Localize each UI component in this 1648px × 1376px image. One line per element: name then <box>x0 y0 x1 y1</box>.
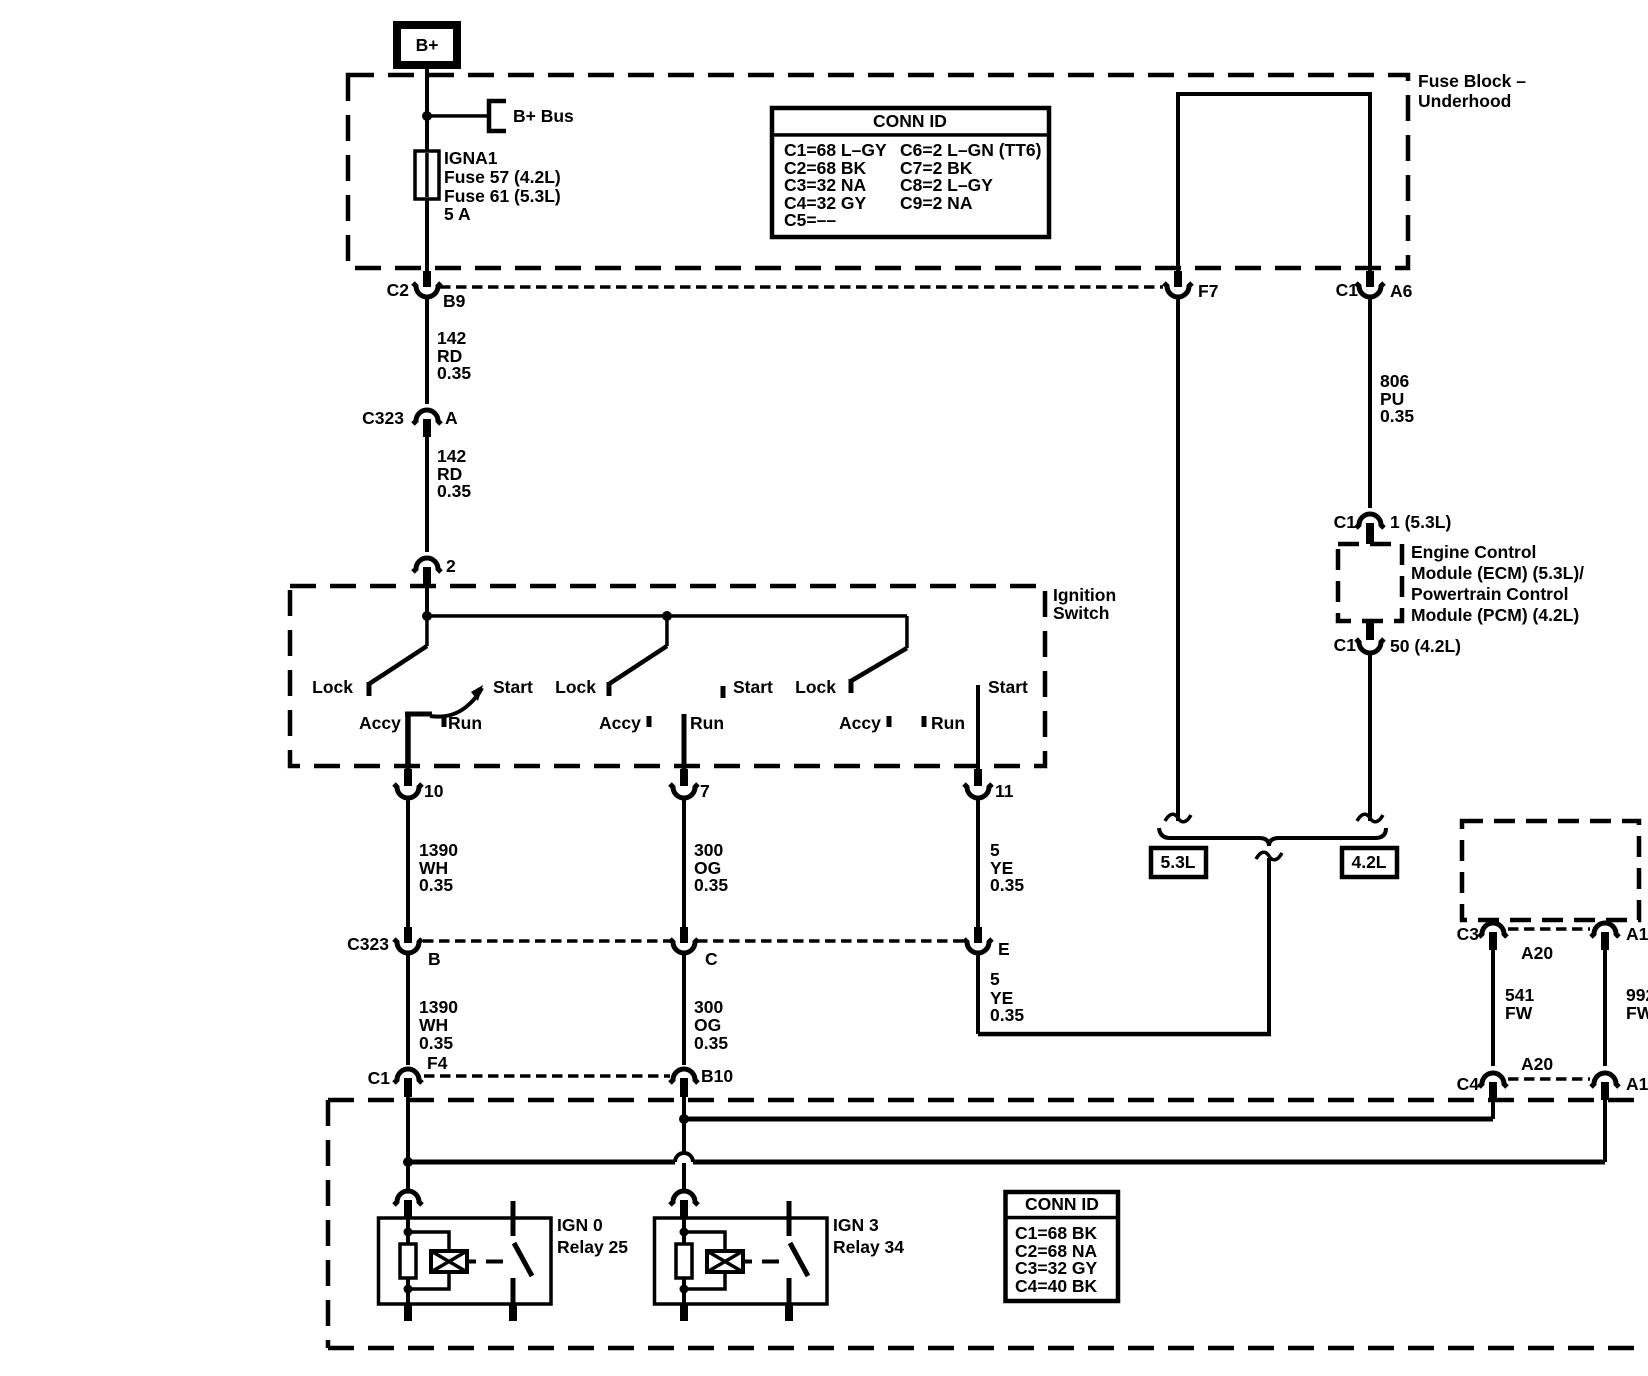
svg-text:142: 142 <box>437 446 466 466</box>
svg-text:1390: 1390 <box>419 840 458 860</box>
wire B+ to fuse IGNA1 <box>425 65 429 151</box>
svg-text:B10: B10 <box>701 1066 733 1086</box>
svg-text:C5=––: C5=–– <box>784 210 836 230</box>
svg-text:4.2L: 4.2L <box>1351 852 1386 872</box>
connector pin 7 <box>680 769 688 786</box>
svg-text:Switch: Switch <box>1053 603 1109 623</box>
svg-text:C323: C323 <box>362 408 404 428</box>
switch 3 Start output wire <box>976 685 980 769</box>
svg-text:Start: Start <box>733 677 773 697</box>
svg-text:0.35: 0.35 <box>437 481 471 501</box>
svg-text:IGN 3: IGN 3 <box>833 1215 879 1235</box>
4.2L tag box <box>1342 848 1397 877</box>
svg-text:C1=68 L–GY: C1=68 L–GY <box>784 140 887 160</box>
svg-text:C4: C4 <box>1457 1074 1480 1094</box>
CONN ID table (underhood center) <box>1006 1192 1119 1301</box>
connector C323 A <box>413 410 441 424</box>
wire B10 to relay 34 <box>682 1097 686 1152</box>
wire C4 corner <box>1491 1100 1495 1119</box>
wire pin11 to C323 E <box>976 799 980 927</box>
wire F7 down <box>1176 298 1180 821</box>
svg-text:Lock: Lock <box>312 677 353 697</box>
wire hop over bus <box>675 1153 693 1162</box>
svg-text:B: B <box>428 949 441 969</box>
svg-text:C3=32 NA: C3=32 NA <box>784 175 867 195</box>
junction relay 25 bus <box>403 1157 413 1167</box>
B+ Bus tap symbol <box>489 101 506 131</box>
svg-text:C: C <box>705 949 718 969</box>
CONN ID table (fuse block) <box>772 108 1049 237</box>
connector C1 pin 50 (4.2L) <box>1366 621 1374 640</box>
svg-text:Accy: Accy <box>599 713 641 733</box>
wire C323 B to C1 F4 <box>406 954 410 1065</box>
connector pin 10 <box>404 769 412 786</box>
svg-text:541: 541 <box>1505 985 1534 1005</box>
svg-text:C2: C2 <box>387 280 410 300</box>
junction switch 1 <box>422 611 432 621</box>
svg-text:806: 806 <box>1380 371 1409 391</box>
svg-text:E: E <box>998 939 1010 959</box>
svg-text:C4=40 BK: C4=40 BK <box>1015 1276 1098 1296</box>
svg-text:0.35: 0.35 <box>990 1005 1024 1025</box>
svg-text:C3=32 GY: C3=32 GY <box>1015 1258 1098 1278</box>
svg-text:Relay 34: Relay 34 <box>833 1237 904 1257</box>
svg-text:50 (4.2L): 50 (4.2L) <box>1390 636 1461 656</box>
connector C323 B <box>404 927 412 943</box>
dotted connector line C4 row <box>1508 1077 1590 1081</box>
switch pole 3 wire <box>905 616 909 648</box>
svg-text:IGNA1: IGNA1 <box>444 148 498 168</box>
svg-text:0.35: 0.35 <box>419 1033 453 1053</box>
svg-text:C323: C323 <box>347 934 389 954</box>
relay IGN 0 Relay 25 <box>379 1218 552 1304</box>
connector C3 A20 <box>1479 923 1507 937</box>
dotted connector line F4-B10 <box>424 1074 670 1078</box>
connector A1 (upper) <box>1591 923 1619 937</box>
svg-text:Ignition: Ignition <box>1053 585 1116 605</box>
connector C4 A20 <box>1479 1073 1507 1087</box>
switch pole 2 wire <box>665 616 669 646</box>
wire pin 50 down <box>1368 654 1372 821</box>
switch pole 1 wire <box>425 616 429 646</box>
svg-text:CONN ID: CONN ID <box>1025 1194 1099 1214</box>
svg-text:B9: B9 <box>443 291 466 311</box>
wire pin7 to C323 C <box>682 799 686 927</box>
wire A1 down <box>1603 950 1607 1066</box>
wire pin10 to C323 B <box>406 799 410 927</box>
svg-text:Lock: Lock <box>795 677 836 697</box>
fuse block internal bus bar <box>1176 94 1180 271</box>
wire B9 to C323 <box>425 298 429 404</box>
svg-text:C1: C1 <box>1336 280 1359 300</box>
svg-text:C8=2 L–GY: C8=2 L–GY <box>900 175 993 195</box>
relay 25 feed connector <box>394 1191 422 1205</box>
svg-text:0.35: 0.35 <box>694 875 728 895</box>
svg-text:7: 7 <box>700 781 710 801</box>
svg-text:Underhood: Underhood <box>1418 91 1511 111</box>
connector C2 B9 <box>423 271 431 287</box>
wire F4 to relay 25 <box>406 1097 410 1190</box>
dotted connector line C323 row <box>423 939 672 943</box>
wire A6 to ECM <box>1368 298 1372 508</box>
junction relay 34 bus <box>679 1114 689 1124</box>
svg-text:0.35: 0.35 <box>990 875 1024 895</box>
svg-text:B+: B+ <box>416 35 439 55</box>
svg-text:F7: F7 <box>1198 281 1218 301</box>
svg-text:Accy: Accy <box>359 713 401 733</box>
svg-text:F4: F4 <box>427 1053 448 1073</box>
ignition switch dashed box <box>290 586 1045 766</box>
svg-text:CONN ID: CONN ID <box>873 111 947 131</box>
svg-text:Module (PCM) (4.2L): Module (PCM) (4.2L) <box>1411 605 1579 625</box>
fuse IGNA1 <box>425 151 429 199</box>
svg-text:0.35: 0.35 <box>437 363 471 383</box>
svg-text:C1: C1 <box>368 1068 391 1088</box>
svg-text:C1=68 BK: C1=68 BK <box>1015 1223 1098 1243</box>
5.3L tag box <box>1151 848 1206 877</box>
svg-text:C6=2 L–GN (TT6): C6=2 L–GN (TT6) <box>900 140 1042 160</box>
svg-text:Fuse 57 (4.2L): Fuse 57 (4.2L) <box>444 167 561 187</box>
svg-text:0.35: 0.35 <box>419 875 453 895</box>
wire C3 down <box>1491 950 1495 1066</box>
wire A1 corner <box>1603 1100 1607 1162</box>
wire C323 to pin 2 <box>425 437 429 552</box>
junction B+ bus tap <box>422 111 432 121</box>
connector C1 F4 <box>394 1069 422 1083</box>
svg-text:Fuse 61 (5.3L): Fuse 61 (5.3L) <box>444 186 561 206</box>
svg-text:142: 142 <box>437 328 466 348</box>
svg-text:A1: A1 <box>1626 1074 1648 1094</box>
dotted connector line B9-F7 <box>440 285 1163 289</box>
switch 2 Run output wire <box>682 714 687 769</box>
svg-text:A: A <box>445 408 458 428</box>
svg-text:0.35: 0.35 <box>694 1033 728 1053</box>
ECM dashed box <box>1338 544 1402 621</box>
svg-text:Engine Control: Engine Control <box>1411 542 1536 562</box>
junction switch 2 <box>662 611 672 621</box>
svg-text:Module (ECM) (5.3L)/: Module (ECM) (5.3L)/ <box>1411 563 1584 583</box>
svg-text:Relay 25: Relay 25 <box>557 1237 628 1257</box>
svg-text:OG: OG <box>694 1015 721 1035</box>
svg-text:Start: Start <box>988 677 1028 697</box>
svg-text:FW: FW <box>1626 1003 1648 1023</box>
svg-text:2: 2 <box>446 556 456 576</box>
svg-text:Accy: Accy <box>839 713 881 733</box>
svg-text:C9=2 NA: C9=2 NA <box>900 193 973 213</box>
svg-text:0.35: 0.35 <box>1380 406 1414 426</box>
svg-text:B+ Bus: B+ Bus <box>513 106 574 126</box>
svg-text:WH: WH <box>419 1015 448 1035</box>
engine merge brace <box>1159 828 1386 846</box>
connector pin 11 <box>974 769 982 786</box>
connector F7 <box>1174 271 1182 287</box>
squiggle end PCM wire (4.2L) <box>1357 814 1383 822</box>
connector C323 C <box>680 927 688 943</box>
svg-text:1 (5.3L): 1 (5.3L) <box>1390 512 1451 532</box>
switch 2 Start contact tick <box>721 686 726 698</box>
fuse block - underhood dashed box <box>348 75 1408 268</box>
bus wire to A1 <box>408 1160 675 1165</box>
connector A1 (lower) <box>1591 1073 1619 1087</box>
B+ power terminal box <box>397 25 457 65</box>
switch 1 Run contact tick <box>442 716 447 727</box>
underhood electrical center dashed box (bottom) <box>328 1098 1643 1103</box>
connector pin 2 ignition switch <box>413 558 441 572</box>
svg-text:1390: 1390 <box>419 997 458 1017</box>
wire fuse to connector C2 <box>425 199 429 271</box>
svg-text:Run: Run <box>690 713 724 733</box>
switch 3 Accy contact tick <box>887 716 892 727</box>
svg-text:300: 300 <box>694 997 723 1017</box>
svg-text:IGN 0: IGN 0 <box>557 1215 603 1235</box>
svg-text:5: 5 <box>990 969 1000 989</box>
svg-text:Lock: Lock <box>555 677 596 697</box>
svg-text:10: 10 <box>424 781 444 801</box>
svg-text:11: 11 <box>995 781 1014 801</box>
svg-text:Start: Start <box>493 677 533 697</box>
wire C323 C to B10 <box>682 954 686 1065</box>
svg-text:Powertrain Control: Powertrain Control <box>1411 584 1569 604</box>
svg-text:Run: Run <box>931 713 965 733</box>
svg-text:C3: C3 <box>1457 924 1480 944</box>
wire C323 E route to engine select <box>976 954 980 1034</box>
svg-text:A20: A20 <box>1521 943 1553 963</box>
connector C1 A6 <box>1366 271 1374 287</box>
svg-text:C1: C1 <box>1334 512 1357 532</box>
connector B10 <box>670 1069 698 1083</box>
relay 34 feed connector <box>670 1191 698 1205</box>
connector C323 E <box>974 927 982 943</box>
wire to B+ bus <box>427 114 487 118</box>
module dashed box (right) <box>1462 821 1639 920</box>
svg-text:992: 992 <box>1626 985 1648 1005</box>
svg-text:C1: C1 <box>1334 635 1357 655</box>
svg-text:Fuse Block –: Fuse Block – <box>1418 71 1526 91</box>
svg-text:A6: A6 <box>1390 281 1413 301</box>
svg-text:5 A: 5 A <box>444 204 471 224</box>
switch common bus wire <box>425 586 429 616</box>
svg-text:300: 300 <box>694 840 723 860</box>
squiggle end F7 wire (5.3L) <box>1165 814 1191 822</box>
svg-text:FW: FW <box>1505 1003 1533 1023</box>
connector C1 pin 1 (5.3L) <box>1356 514 1384 528</box>
switch 1 Accy output wire <box>405 713 411 769</box>
switch 1 wiper arc with arrow <box>405 712 432 717</box>
svg-text:A20: A20 <box>1521 1054 1553 1074</box>
svg-text:A1: A1 <box>1626 924 1648 944</box>
switch 3 Run contact tick <box>922 716 927 727</box>
squiggle merge output <box>1256 852 1282 860</box>
svg-text:5: 5 <box>990 840 1000 860</box>
dotted connector line C3 row <box>1508 927 1590 931</box>
svg-text:5.3L: 5.3L <box>1160 852 1195 872</box>
switch 2 Accy contact tick <box>647 716 652 727</box>
bus wire to C4 <box>684 1117 1493 1122</box>
relay IGN 3 Relay 34 <box>655 1218 828 1304</box>
